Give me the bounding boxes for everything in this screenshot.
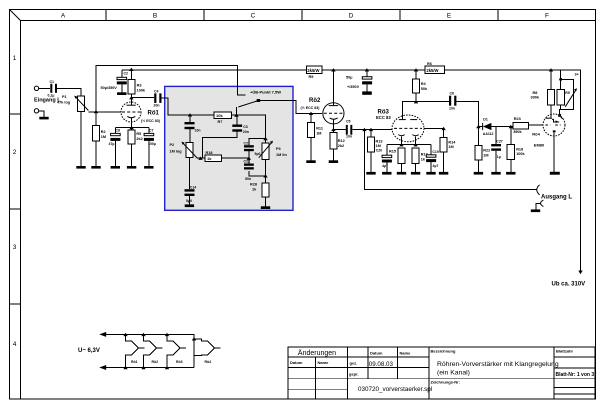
svg-text:4µ7: 4µ7 [433,164,439,168]
wire C2 riser [121,70,123,78]
svg-text:gepr.: gepr. [349,372,359,377]
wire Rö3 plates tied to R4 [402,93,449,120]
arrow Ub supply [578,271,582,275]
resistor R7 [214,112,232,124]
svg-text:50µ: 50µ [346,76,352,80]
svg-text:Rö1: Rö1 [148,111,160,117]
wire input to C1 [39,87,50,89]
node E (P3 bottom) [263,174,267,177]
svg-text:0,1µ: 0,1µ [48,94,55,98]
node rail Rö2 [331,68,335,71]
svg-text:2k2: 2k2 [338,144,344,148]
svg-text:4: 4 [13,341,17,348]
wire rail to R3 [130,70,132,80]
node R9 tap [559,78,562,81]
wire wiper to R8 [198,157,205,159]
capacitor C2 (filter elco) [101,72,129,90]
potentiometer P1 [57,95,88,112]
ground (C2) [117,92,126,95]
svg-text:R6: R6 [427,62,432,66]
node D (P3 top) [263,137,267,140]
output jack ground pin [531,200,544,212]
resistor R17 [412,148,428,172]
svg-text:C1: C1 [50,80,55,84]
svg-text:C19: C19 [432,150,438,154]
svg-text:10n: 10n [195,129,201,133]
svg-text:+/350V: +/350V [347,85,360,89]
svg-text:R13: R13 [376,139,383,143]
svg-text:R3: R3 [137,84,142,88]
svg-text:U~ 6,3V: U~ 6,3V [78,348,100,354]
diode D1 AA112 [483,117,494,136]
wire P1 bottom to ground [80,112,82,167]
potentiometer P3 [259,141,288,160]
svg-text:100k: 100k [137,88,146,92]
svg-text:3: 3 [13,244,17,251]
resistor R6 (rail, boxed) [425,62,445,73]
ground (C7) [144,166,153,169]
ground (C8) [111,166,120,169]
title block [288,347,595,399]
svg-text:Blatt-Nr: 1 von 3: Blatt-Nr: 1 von 3 [556,372,595,378]
svg-text:Rö4: Rö4 [532,131,540,136]
ground (input) [39,117,48,120]
switch lever [238,101,258,108]
svg-text:Rö3: Rö3 [176,360,183,364]
svg-text:R9: R9 [565,91,570,95]
input terminal Eingang L (hot) [34,86,38,90]
svg-text:R8: R8 [533,91,538,95]
ground (R14) [439,172,448,175]
resistor R15 [389,148,405,172]
wire C1 to P1 [57,88,81,96]
svg-text:D1: D1 [483,117,488,121]
ground (R12) [329,160,338,163]
switch contact lower [235,107,237,115]
svg-text:EM80: EM80 [534,142,545,147]
svg-text:1: 1 [13,55,17,62]
tube Rö2 [301,98,345,124]
wire R9 bottom [560,105,562,110]
capacitor C4 [154,89,162,107]
wire Rö1 cathode [131,117,133,127]
svg-text:R18: R18 [206,151,213,155]
B+ rail [122,70,581,271]
svg-text:C14: C14 [190,186,196,190]
ground (C14) [185,204,194,207]
resistor R13 [367,129,382,172]
input terminal (ground) [34,109,38,113]
potentiometer P2 [170,142,198,159]
svg-text:5µ0: 5µ0 [255,152,261,156]
svg-text:10n: 10n [346,135,352,139]
svg-text:2: 2 [13,149,17,156]
svg-text:Röhren-Vorverstärker mit Klang: Röhren-Vorverstärker mit Klangregelung [437,361,559,368]
svg-text:10k: 10k [216,113,223,118]
node R18b top [509,125,513,128]
node rail R8 [549,68,553,71]
node B (R7 out) [234,113,238,116]
wire C5 to Rö3 grid [352,128,392,130]
heater top wire with arrow [99,332,194,368]
svg-text:R5: R5 [136,132,141,136]
resistor R4 [412,79,428,93]
ground (R5k) [127,166,136,169]
capacitor C21 (upper) [244,139,266,159]
grid row labels [13,55,17,348]
svg-text:2k2: 2k2 [136,137,142,141]
wire to Ausgang L [365,129,538,189]
heater Rö2 [141,333,162,370]
svg-text:Blattzahl: Blattzahl [556,349,573,354]
capacitor C8 (cathode bypass left) [109,128,121,167]
svg-text:R14: R14 [448,140,456,144]
capacitor C22 (lower) [244,158,266,181]
ground (C20) [382,172,391,175]
capacitor C3 (treble series) [203,115,249,158]
svg-text:C3: C3 [243,125,248,129]
svg-text:D: D [349,13,354,20]
node cathode Rö2 [331,128,335,131]
wire rail to R8 to anode bar [550,70,552,118]
resistor R23 (boxed 390k) [513,117,529,134]
capacitor C14 (P2 foot) [185,186,197,205]
svg-text:09.08.03: 09.08.03 [369,361,394,368]
svg-text:100k: 100k [516,152,525,156]
wire Rö3 cathodes [387,137,431,145]
resistor R28 [250,182,269,197]
svg-text:2k5/W: 2k5/W [426,68,438,73]
heater bottom wire with arrow [99,365,194,370]
wire Rö2 plate to rail [332,70,334,106]
node grid Rö1 [94,110,98,113]
svg-text:C22: C22 [244,160,250,164]
wire cathode rail [115,127,149,129]
svg-text:R15: R15 [389,150,396,154]
svg-text:F: F [545,13,549,20]
heater Rö4 [192,337,221,364]
svg-text:47k log: 47k log [57,101,71,105]
wire R14 to ground [443,152,445,172]
svg-text:390k: 390k [513,130,522,134]
capacitor C20 [376,145,392,172]
svg-text:C27: C27 [496,140,502,144]
svg-text:C: C [251,13,256,20]
wire R28 to ground [265,197,267,206]
capacitor C7 (cathode bypass right) [144,128,156,167]
svg-text:2k5/W: 2k5/W [307,68,319,73]
node plate tie [414,100,418,103]
node grid right [441,127,445,130]
svg-text:1M lin: 1M lin [276,153,287,157]
wire R2 to ground [95,141,97,166]
svg-text:E: E [447,13,452,20]
wire R7 to P3 riser [232,115,266,143]
svg-text:Datum: Datum [370,351,383,356]
wire P2 bottom [188,158,190,190]
svg-text:C6: C6 [450,92,455,96]
svg-text:(ein Kanal): (ein Kanal) [437,370,470,377]
svg-text:10n: 10n [449,107,455,111]
resistor R14 [440,137,456,152]
svg-text:R5: R5 [309,75,314,79]
svg-text:(½ ECC 83): (½ ECC 83) [141,119,161,123]
svg-text:P1: P1 [62,95,67,99]
svg-text:Name: Name [318,360,330,365]
title block text [290,349,594,394]
wire Rö2 cathode [332,119,334,129]
svg-text:AA112: AA112 [483,132,494,136]
svg-text:R2: R2 [101,130,106,134]
node cathode Rö1 [129,126,133,129]
node diode input [476,125,480,128]
ground (R2) [91,166,100,169]
capacitor C5 [333,119,352,138]
svg-text:1k: 1k [207,156,212,161]
wire C4 into tone box [162,98,215,115]
grid column labels [61,13,549,20]
node grid Rö2 [309,112,313,115]
svg-text:R11: R11 [316,127,323,131]
svg-text:1M: 1M [376,144,381,148]
wire grid node to R11 [310,113,312,122]
wire R9 loop [560,79,574,115]
svg-text:R18: R18 [516,147,523,151]
resistor R11 [307,123,323,138]
svg-text:47µ: 47µ [109,142,115,146]
switch pivot [257,99,260,102]
svg-text:gez.: gez. [350,361,358,366]
heater Rö1 [123,333,144,370]
capacitor C10 (bass series) [185,115,201,143]
wire R23 to EM80 grid [529,124,544,126]
tube Rö4 EM80 [532,114,565,147]
ground (R15) [397,172,406,175]
svg-text:50n: 50n [245,177,251,181]
svg-text:R7: R7 [218,120,223,124]
capacitor C6 [449,92,456,111]
node output tap [362,128,366,131]
node plate Rö1 [129,96,133,99]
svg-text:R22: R22 [483,149,490,153]
wire P3 bottom to R28 [265,160,267,183]
svg-text:Bezeichnung: Bezeichnung [431,349,456,354]
capacitor C1 [48,80,58,98]
node R3 top [129,68,133,71]
wire R11 to ground [310,138,312,161]
svg-text:Rö2: Rö2 [309,98,321,104]
svg-text:1M: 1M [316,131,321,135]
svg-text:(½ ECC 83): (½ ECC 83) [301,106,321,110]
svg-text:C20: C20 [376,149,382,153]
svg-text:Name: Name [400,351,412,356]
wire grid node up to bypass rail [96,66,245,113]
ground (C27) [491,172,500,175]
ground (R17) [411,172,420,175]
tone control box (grey with blue frame) [165,86,293,210]
svg-text:C7: C7 [149,129,154,133]
tube Rö3 [376,110,424,142]
svg-text:20n: 20n [154,104,160,108]
resistor R18b (100k) [507,127,525,172]
svg-text:ECC 83: ECC 83 [376,115,391,120]
node C [247,157,251,160]
ground (C19) [426,172,435,175]
resistor R18 [205,151,222,161]
capacitor C19 (cathode right) [426,145,439,172]
capacitor C27 [491,127,503,172]
ground (P1) [76,166,85,169]
svg-text:P3: P3 [276,147,281,151]
svg-text:+ÜB-Punkt 7,5W: +ÜB-Punkt 7,5W [250,90,281,95]
svg-text:Änderungen: Änderungen [298,349,336,357]
svg-text:B: B [153,13,157,20]
capacitor C9 (rail filter elco) [346,68,372,95]
resistor R2 [92,126,106,142]
svg-text:C4: C4 [154,89,159,93]
wire R4 top to rail [415,70,417,79]
potentiometer R9 (screen trim) [557,88,577,107]
wire R18 to cap node [222,157,249,159]
svg-text:390k: 390k [531,96,540,100]
node A (tone input) [188,113,192,116]
ground (R18b) [506,172,515,175]
node wiper P2 [198,157,202,160]
svg-text:A: A [61,13,66,20]
svg-text:C5: C5 [346,119,351,123]
resistor R8 (EM80 anode) [531,89,555,105]
wire R3 to plate / node to C4 [131,94,154,105]
ground (R22) [474,172,483,175]
ground (R11) [306,160,315,163]
wire EM80 cathode to ground [553,132,555,172]
wire input ground stub [39,111,44,117]
svg-text:R23: R23 [514,117,521,121]
svg-text:R28: R28 [250,182,257,186]
node R13 [369,128,373,131]
svg-text:Datum: Datum [290,360,303,365]
wire rail to R9 [560,70,562,90]
resistor R3 [128,79,146,94]
svg-text:Rö4: Rö4 [205,360,212,364]
ground (R28) [261,206,270,209]
heater Rö3 [165,333,186,370]
output jack Ausgang L [537,185,573,200]
wire P1 wiper to Rö1 grid [89,111,122,113]
svg-text:C8: C8 [116,129,121,133]
svg-text:030720_vorverstaerker.spl: 030720_vorverstaerker.spl [358,386,432,393]
ground (R13) [366,172,375,175]
wire C6 to diode node [456,102,478,127]
tube Rö1 [121,102,161,123]
svg-text:1M: 1M [101,135,106,139]
node rail R4 [414,68,418,71]
svg-text:Ub ca. 310V: Ub ca. 310V [552,282,586,288]
resistor R5k (cathode) [128,128,143,167]
svg-text:Rö2: Rö2 [152,360,159,364]
svg-text:C21: C21 [244,141,250,145]
svg-text:50k: 50k [421,87,428,91]
wire C2 to ground [121,84,123,92]
svg-text:Rö1: Rö1 [131,360,138,364]
svg-text:Zeichnungs-Nr:: Zeichnungs-Nr: [431,380,461,385]
ground (EM80) [550,172,560,175]
svg-text:1M: 1M [448,145,453,149]
svg-text:P2: P2 [170,143,175,147]
svg-text:R12: R12 [338,139,345,143]
wire node to diode [478,126,482,128]
resistor R12 [330,129,345,160]
node cathode left [399,143,403,146]
svg-text:Ausgang L: Ausgang L [541,194,572,200]
svg-text:C2: C2 [124,72,129,76]
wire Rö3 grid right to R14 [424,128,444,137]
svg-text:50µ/350V: 50µ/350V [101,86,118,90]
svg-text:1M log: 1M log [170,150,183,154]
svg-text:20n: 20n [243,130,249,134]
wire grid node down to R2 [95,112,97,126]
svg-text:1M: 1M [483,153,488,157]
resistor R22 [475,127,490,172]
svg-text:1µ: 1µ [497,155,501,159]
resistor R5 (rail, boxed) [306,66,322,79]
wire switch to Rö2 grid [259,101,323,114]
node cathode right [413,143,417,146]
wire diode to R23 [491,126,513,128]
